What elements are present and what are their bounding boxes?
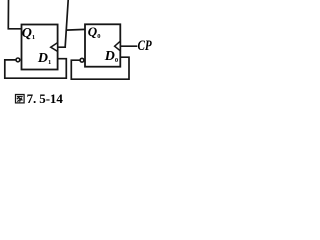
wire Q1 output to top edge	[8, 0, 21, 29]
wire Q0 output to node A	[66, 28, 85, 31]
bubble Q̄1 output	[16, 58, 20, 62]
clock triangle FF0	[115, 41, 121, 51]
svg-text:CP: CP	[138, 38, 152, 54]
bubble Q̄0 output	[80, 58, 84, 62]
caption 图 7.5-14	[16, 95, 25, 103]
flip-flop FF1 box	[22, 25, 58, 70]
clock triangle FF1	[51, 43, 58, 52]
wire Q̄1 feedback to D1	[5, 59, 67, 78]
svg-text:7. 5-14: 7. 5-14	[27, 91, 64, 106]
flip-flop FF0 box	[85, 24, 120, 66]
wire CP input	[121, 45, 137, 47]
wire Q̄0 feedback to D0	[71, 57, 129, 79]
wire FF1 clock from node A	[58, 0, 69, 47]
